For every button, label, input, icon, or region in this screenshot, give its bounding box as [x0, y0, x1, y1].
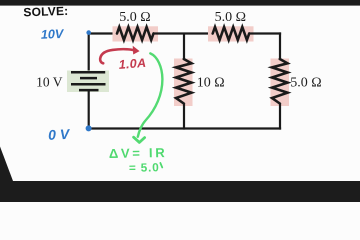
node 0V dot — [86, 125, 92, 131]
resistor R3 10 ohm vertical — [174, 59, 193, 107]
svg-text:5.0 Ω: 5.0 Ω — [215, 10, 246, 25]
svg-text:10 V: 10 V — [36, 75, 63, 90]
wire battery top lead — [88, 33, 90, 74]
svg-text:5.0 Ω: 5.0 Ω — [119, 10, 150, 25]
wire top node to R1 — [89, 32, 118, 34]
annotation 10V — [41, 27, 65, 42]
wire right branch down from corner — [279, 32, 281, 61]
wire R2 to top-right corner — [249, 32, 281, 34]
resistor R4 5.0 ohm vertical — [271, 59, 290, 107]
value label 10 ohm (R3) — [197, 75, 225, 90]
wire R3 bottom stub — [183, 103, 185, 130]
annotation 0V — [48, 126, 74, 143]
svg-text:= 5.0: = 5.0 — [129, 160, 160, 175]
svg-text:ΔV= IR: ΔV= IR — [109, 145, 168, 161]
note SOLVE: — [23, 4, 68, 20]
svg-text:SOLVE:: SOLVE: — [23, 4, 68, 20]
value label 5.0 ohm (R2) — [215, 10, 246, 25]
annotation 1.0A — [118, 56, 147, 72]
annotation = 5.0 — [129, 160, 163, 175]
value label 10 V (battery) — [36, 75, 63, 90]
value label 5.0 ohm (R4) — [290, 75, 321, 90]
battery V1 — [67, 71, 109, 93]
current arrow I = 1.0 A — [100, 46, 139, 64]
svg-text:10V: 10V — [41, 27, 65, 42]
voltage arrow (green) — [134, 53, 163, 142]
wire battery bottom lead — [88, 91, 90, 130]
wire R4 bottom stub — [279, 103, 281, 130]
svg-text:10 Ω: 10 Ω — [197, 75, 225, 90]
wire bottom rail — [88, 127, 282, 129]
svg-text:1.0A: 1.0A — [118, 56, 147, 72]
resistor R2 — [208, 26, 254, 41]
wire middle branch down from node B — [183, 34, 185, 62]
svg-text:0V: 0V — [48, 126, 74, 143]
value label 5.0 ohm (R1) — [119, 10, 150, 25]
node 10V dot — [86, 30, 91, 35]
resistor R1 — [113, 26, 159, 41]
wire R1 to R2 through node B — [153, 32, 213, 34]
svg-text:5.0 Ω: 5.0 Ω — [290, 75, 321, 90]
annotation delta-V = IR — [109, 145, 168, 161]
